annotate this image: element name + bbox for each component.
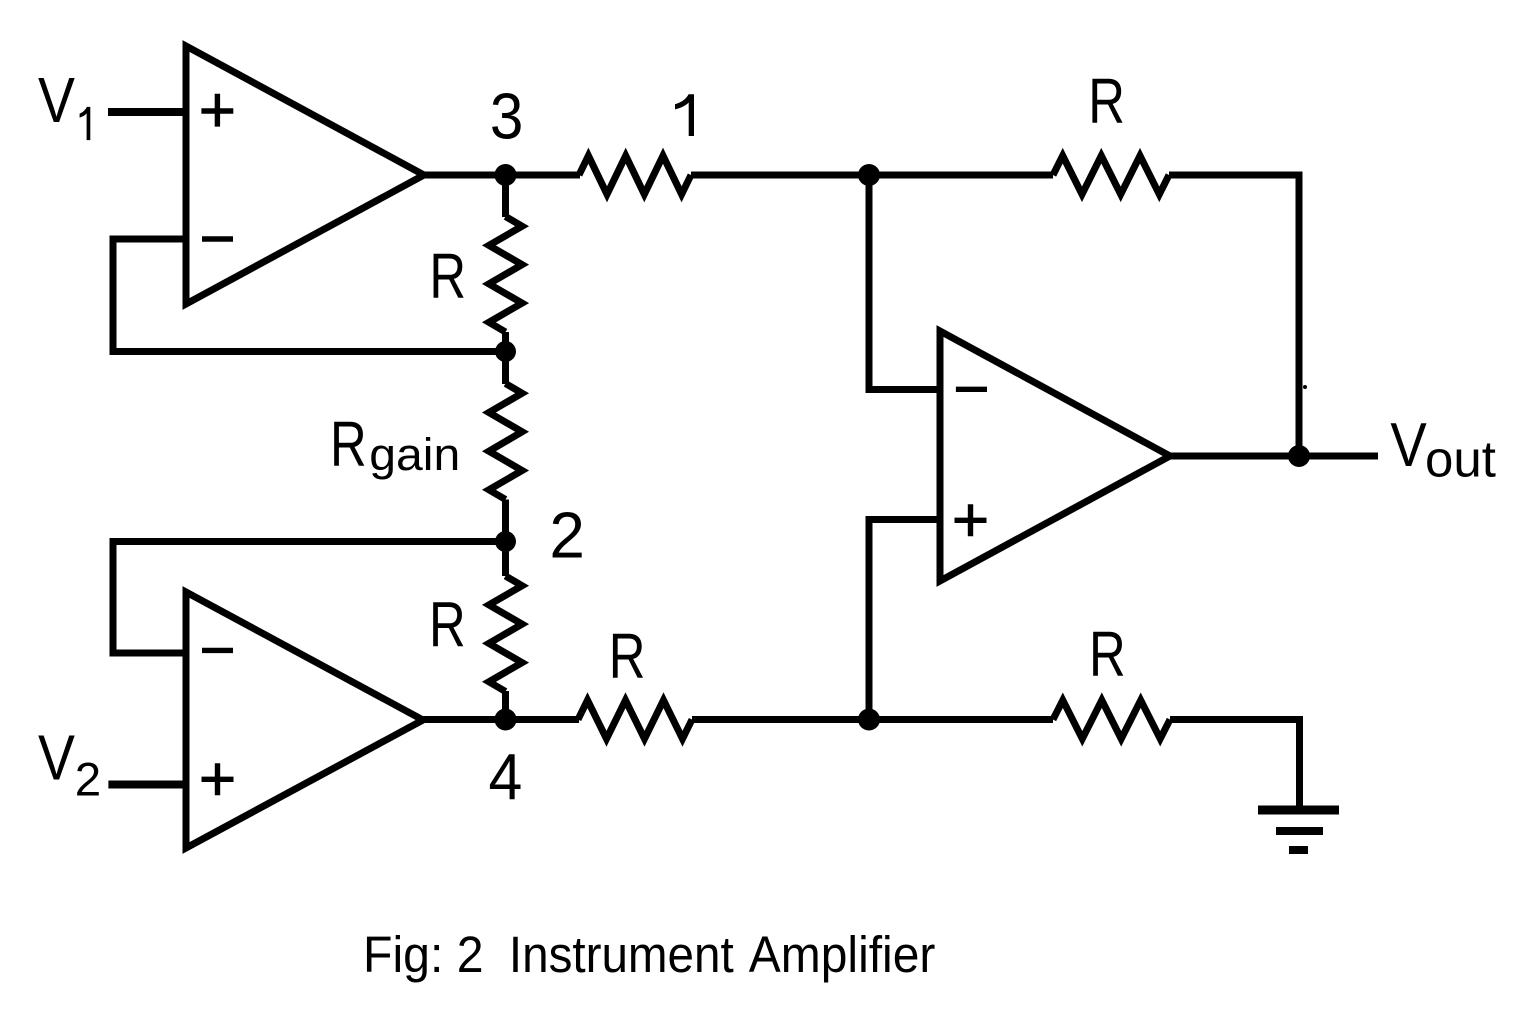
node 3 junction dot: [495, 164, 517, 186]
wire U2 output to node 4: [419, 716, 579, 723]
wire top feedback to Vout node (right rail): [1169, 175, 1299, 456]
wire U1 feedback loop (- input to R/Rgain junction): [113, 239, 506, 352]
svg-text:Amplifier: Amplifier: [749, 926, 936, 984]
resistor R (bottom right, node B to ground): [1053, 700, 1170, 739]
label V1: [38, 64, 90, 140]
wire node 3 down to resistor R: [502, 175, 509, 217]
svg-text:out: out: [1425, 431, 1496, 488]
label node 3: [490, 82, 523, 153]
wire bottom resistor to node B: [692, 716, 1053, 723]
wire U2 feedback loop (node 2 to - input): [113, 542, 506, 654]
wire V1 to U1 + input: [108, 108, 186, 116]
wire vertical R to node 4: [502, 691, 509, 720]
svg-text:3: 3: [490, 82, 523, 153]
Vout node junction dot: [1288, 445, 1310, 467]
resistor Rgain (vertical): [489, 384, 522, 500]
op-amp U2 (bottom-left): [186, 592, 423, 848]
svg-text:Instrument: Instrument: [509, 926, 734, 983]
wire Rgain to node 2: [502, 500, 509, 577]
svg-text:V: V: [38, 722, 75, 794]
wire U3 + input down to node B: [869, 520, 940, 720]
label R (upper middle): [429, 242, 466, 313]
label Rgain: [330, 410, 460, 481]
wire resistor 1 to node A: [691, 172, 1053, 179]
svg-text:gain: gain: [369, 429, 460, 479]
resistor R (vertical, node 2 to node 4): [489, 576, 522, 692]
svg-text:R: R: [330, 410, 367, 481]
svg-text:V: V: [38, 64, 75, 136]
ground symbol: [1258, 810, 1339, 850]
wire bottom right resistor to ground: [1170, 720, 1300, 809]
wire U1 output to node 3: [420, 172, 580, 179]
label node 4: [489, 741, 523, 813]
label R (bottom right): [1089, 620, 1126, 691]
resistor R (vertical, node 3 to feedback junction): [489, 217, 522, 333]
op-amp U3 (right): [940, 331, 1170, 581]
feedback junction dot: [495, 341, 516, 362]
wire V2 to U2 + input: [108, 781, 186, 789]
label 1: [675, 94, 694, 136]
label V2: [38, 722, 101, 807]
label Vout: [1390, 411, 1496, 488]
svg-text:Fig: 2: Fig: 2: [363, 926, 484, 984]
resistor R (top feedback, horizontal): [1053, 156, 1169, 195]
svg-text:R: R: [429, 242, 466, 313]
resistor 1 (horizontal, node 3 to node A): [579, 156, 691, 195]
svg-text:V: V: [1390, 411, 1426, 480]
wire node A down to U3 - input: [869, 175, 940, 390]
node A junction dot: [858, 164, 880, 186]
resistor R (bottom, node 4 to node B): [578, 700, 692, 739]
svg-text:R: R: [429, 590, 466, 661]
node 4 junction dot: [495, 709, 517, 731]
op-amp U1 (top-left): [186, 46, 424, 304]
stray dot: [1303, 385, 1307, 389]
svg-text:R: R: [1088, 66, 1125, 137]
wire U3 output to Vout: [1166, 453, 1378, 460]
label R (bottom middle): [609, 622, 646, 693]
node B junction dot: [858, 709, 880, 731]
label R (top feedback): [1088, 66, 1125, 137]
svg-text:R: R: [609, 622, 646, 693]
caption: Fig: 2 Instrument Amplifier: [363, 926, 484, 984]
node 2 junction dot: [495, 531, 516, 552]
svg-text:4: 4: [489, 741, 523, 813]
label node 2: [549, 499, 585, 571]
svg-text:R: R: [1089, 620, 1126, 691]
svg-text:2: 2: [75, 754, 101, 807]
label R (lower middle vertical): [429, 590, 466, 661]
wire vertical R to feedback junction: [502, 332, 509, 384]
svg-text:2: 2: [549, 499, 585, 571]
